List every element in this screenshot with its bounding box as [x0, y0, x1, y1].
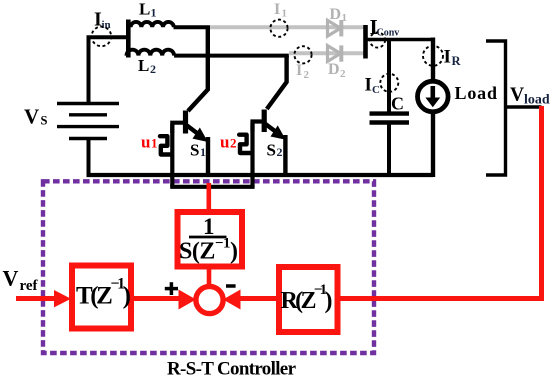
label 1 over S(Z-1) — [179, 214, 238, 265]
svg-text:I2: I2 — [296, 62, 310, 81]
svg-text:S2: S2 — [267, 141, 283, 160]
svg-text:1: 1 — [203, 214, 215, 239]
wire: source to inductor node — [89, 37, 129, 104]
current probe circle I2 — [294, 46, 311, 63]
svg-text:VS: VS — [24, 105, 48, 129]
block T(Z-1) — [72, 266, 131, 329]
capacitor C — [370, 114, 410, 123]
bracket: Vload measurement — [486, 41, 542, 175]
current probe circle IR — [423, 46, 443, 66]
svg-text:D1: D1 — [330, 6, 348, 24]
diode D1 — [328, 20, 342, 36]
wire: gray link S2 node to D2 — [289, 51, 364, 55]
wire: S2 emitter to rail — [283, 135, 287, 177]
wire: load bottom lead — [431, 112, 435, 177]
arrow: into summing junction from right (red) — [223, 290, 241, 310]
block R(Z-1) — [279, 267, 338, 332]
svg-text:u1: u1 — [141, 132, 158, 151]
svg-text:u2: u2 — [220, 132, 237, 151]
PWM symbol at S2 gate — [239, 135, 251, 153]
wire: L1 to S1/D1 node — [174, 25, 211, 29]
block 1/S(Z-1) — [178, 212, 243, 267]
wire: output top rail — [366, 38, 436, 42]
label minus — [226, 284, 236, 288]
wire: R to summing junction (red) — [238, 296, 280, 301]
wire: gate bus below rail — [170, 185, 254, 189]
wire: T to summing junction (red) — [131, 296, 183, 301]
node bar: converter output — [363, 25, 368, 59]
svg-text:Vload: Vload — [510, 85, 550, 108]
label plus — [165, 282, 178, 295]
current probe circle I1 — [270, 20, 287, 37]
bottom rail — [87, 173, 434, 177]
svg-text:Vref: Vref — [3, 266, 39, 295]
svg-text:IC: IC — [365, 75, 381, 97]
PWM symbol at S1 gate — [160, 136, 171, 154]
svg-text:R-S-T Controller: R-S-T Controller — [167, 359, 297, 379]
wire: S2 gate lead — [250, 123, 254, 187]
svg-text:C: C — [391, 94, 404, 114]
svg-text:Load: Load — [455, 83, 498, 103]
svg-text:T(Z−1): T(Z−1) — [76, 276, 131, 310]
svg-text:L1: L1 — [139, 0, 157, 20]
current probe circle IC — [380, 74, 398, 92]
wire: Vload feedback (red) — [338, 106, 542, 299]
battery VS — [57, 104, 119, 139]
load source symbol — [418, 81, 449, 112]
current probe circle IConv — [370, 32, 385, 47]
node: inductor input bar — [126, 20, 131, 58]
wire: 1/S to summing junction (red) — [207, 267, 212, 289]
transistor S1 — [172, 111, 207, 142]
current probe circle Iin — [92, 27, 112, 47]
svg-text:R(Z−1): R(Z−1) — [281, 282, 333, 314]
svg-text:L2: L2 — [138, 56, 156, 76]
svg-text:I1: I1 — [274, 1, 287, 20]
wire: control signal to gates (red) — [207, 183, 212, 214]
wire: L2 to S2 collector corner — [174, 54, 289, 58]
wire: S1 gate lead — [170, 124, 174, 187]
svg-text:IR: IR — [444, 47, 462, 69]
controller boundary dashed box — [43, 181, 374, 353]
svg-text:IConv: IConv — [370, 15, 400, 39]
wire: battery negative to rail — [87, 139, 91, 177]
svg-text:S1: S1 — [190, 141, 206, 160]
arrow: Vref into T block (red) — [54, 290, 71, 307]
wire: L1 node to S1 collector — [188, 27, 208, 111]
arrow: into summing junction from left (red) — [179, 290, 197, 310]
wire: Vref input (red) — [16, 296, 57, 301]
wire: capacitor top lead — [387, 40, 391, 114]
svg-text:D2: D2 — [328, 61, 346, 80]
diode D2 — [328, 45, 342, 61]
svg-text:S(Z−1): S(Z−1) — [179, 236, 238, 265]
transistor S2 — [253, 110, 285, 140]
wire: load top lead — [431, 38, 435, 83]
summing junction — [196, 286, 223, 313]
wire: L2 corner to S2 collector — [267, 56, 287, 109]
inductor L2 — [127, 50, 175, 56]
wire: capacitor bottom lead — [387, 123, 391, 176]
wire: S1 emitter to rail — [206, 137, 210, 177]
wire: gray link L1 node to D1 — [210, 25, 364, 29]
inductor L1 — [131, 22, 174, 27]
